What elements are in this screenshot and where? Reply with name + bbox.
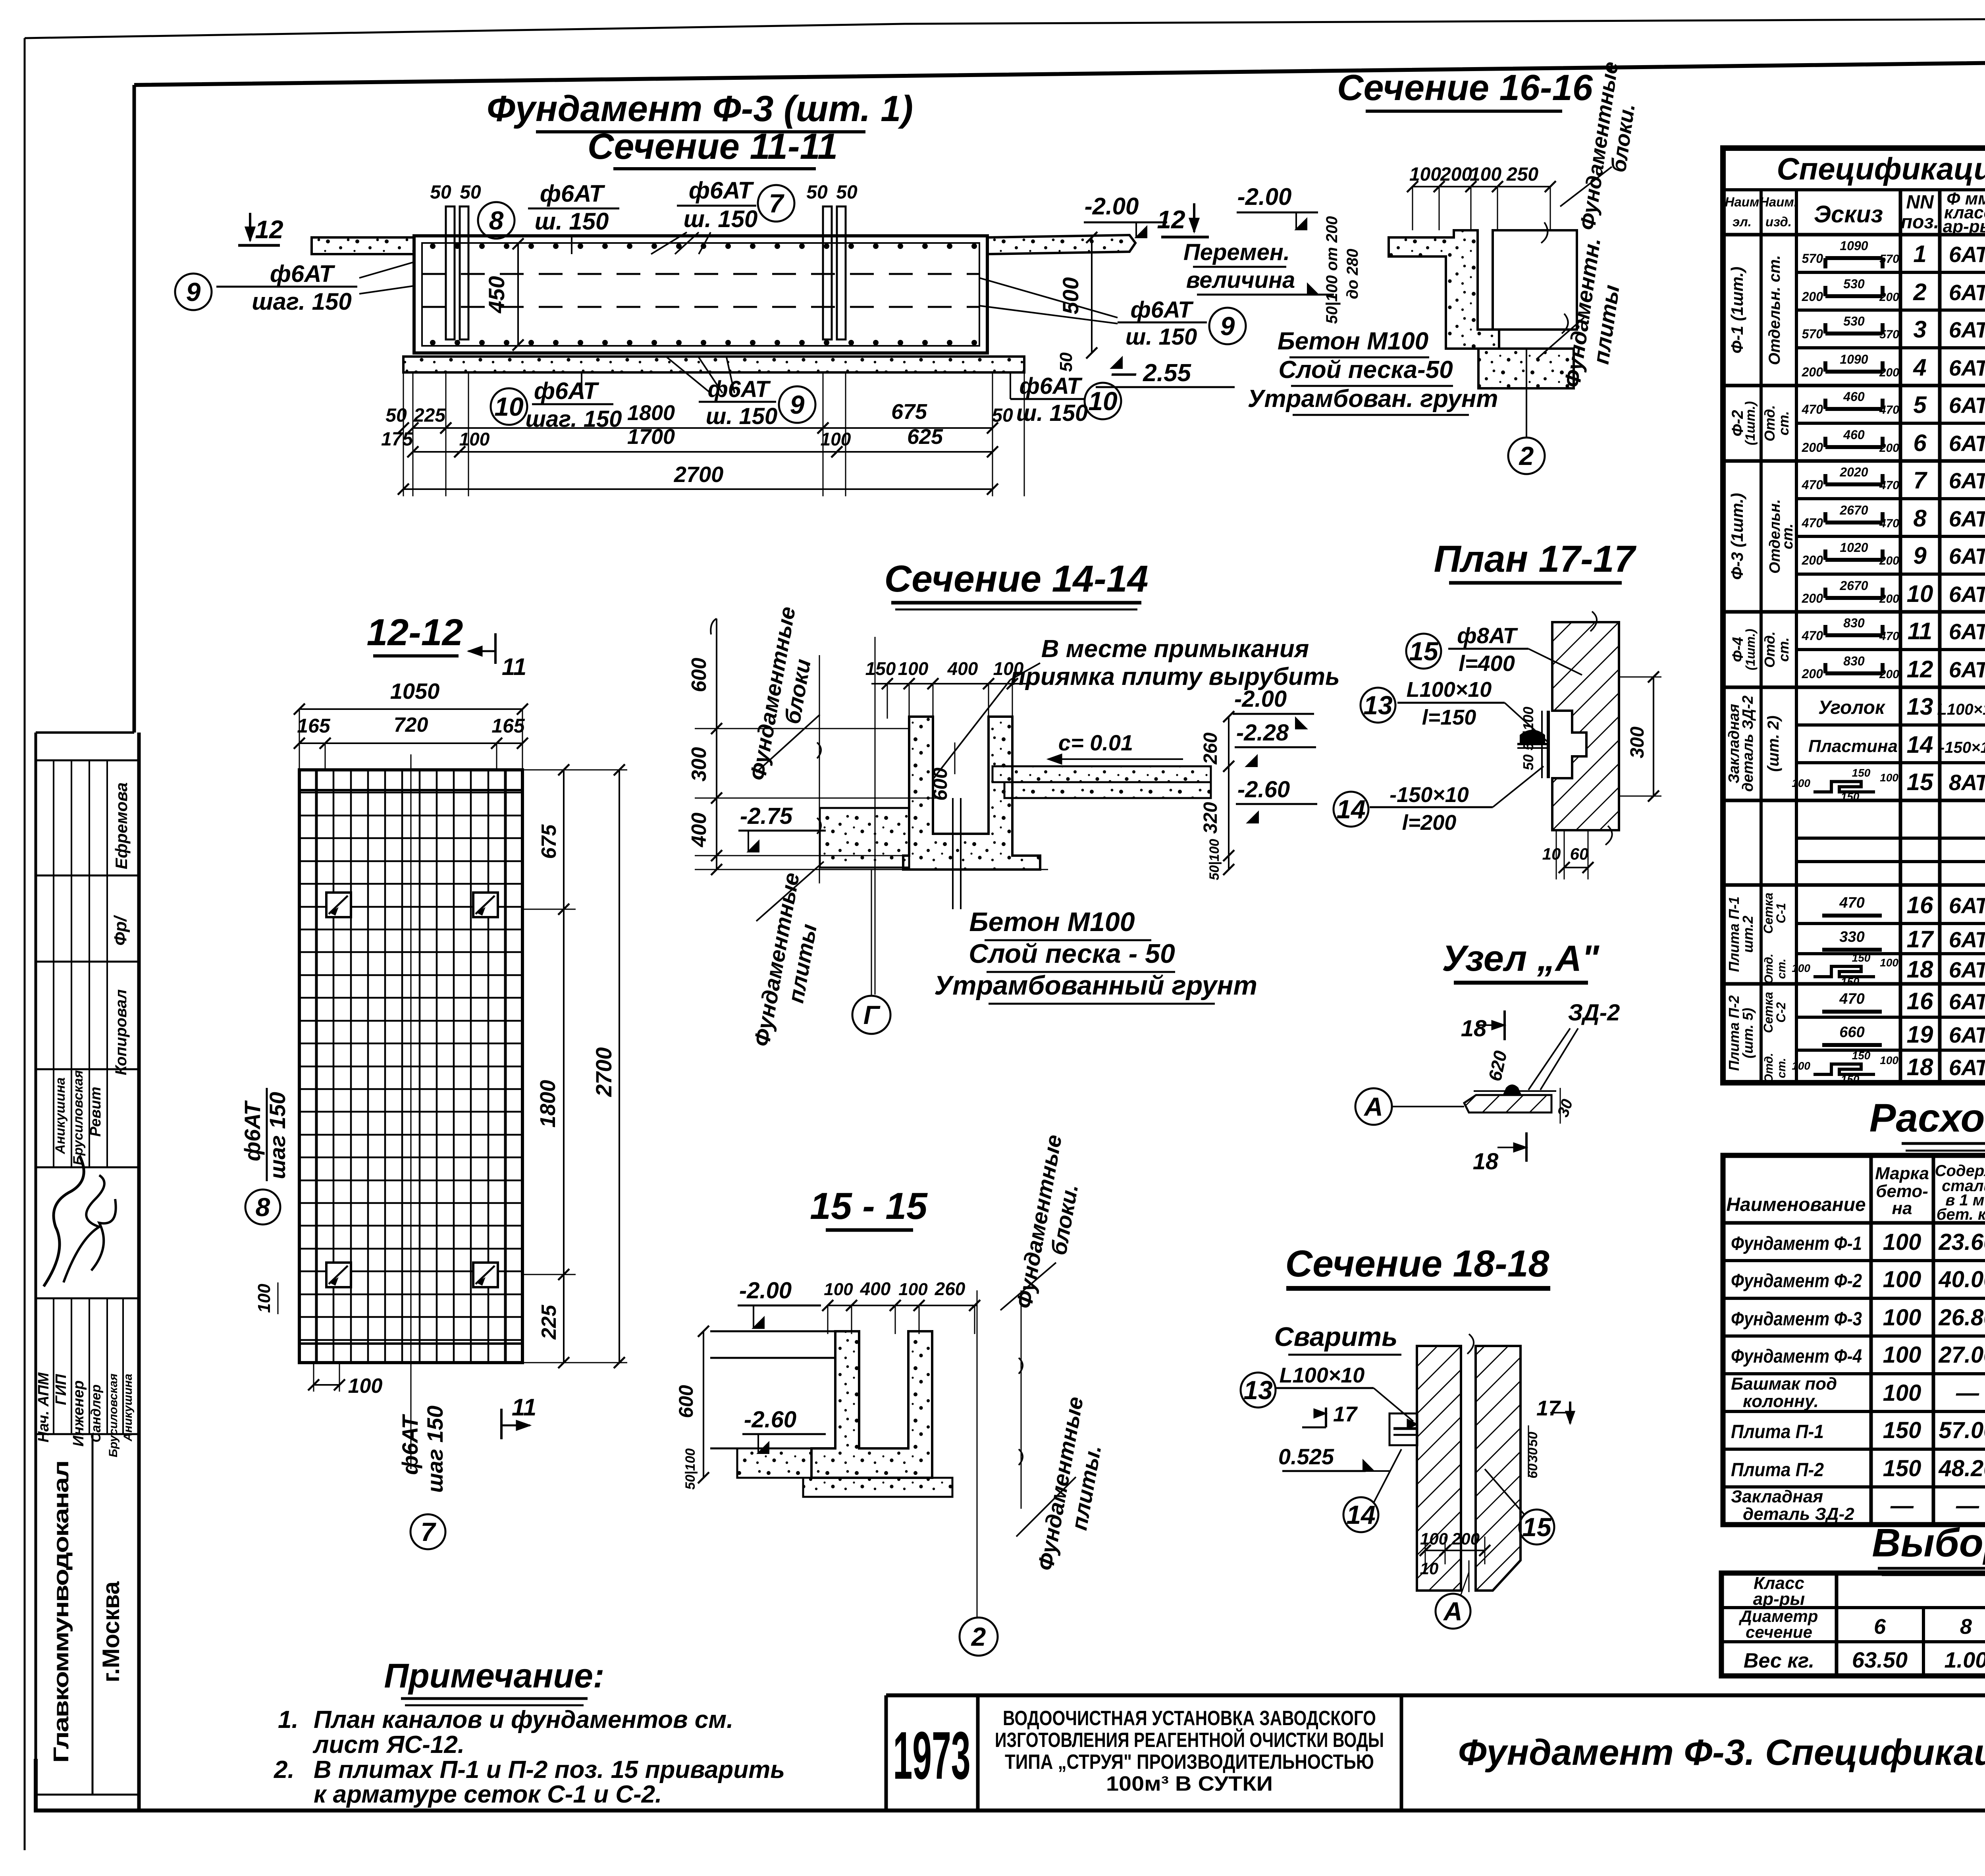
svg-text:ИЗГОТОВЛЕНИЯ РЕАГЕНТНОЙ ОЧИСТК: ИЗГОТОВЛЕНИЯ РЕАГЕНТНОЙ ОЧИСТКИ ВОДЫ bbox=[995, 1728, 1384, 1752]
svg-text:на: на bbox=[1892, 1199, 1912, 1218]
plan 12-12 cut mark 11 top bbox=[494, 633, 497, 664]
svg-text:Расход материалов.: Расход материалов. bbox=[1869, 1096, 1985, 1140]
svg-text:С-1: С-1 bbox=[1774, 903, 1788, 924]
svg-text:200: 200 bbox=[1879, 442, 1899, 455]
svg-text:300: 300 bbox=[688, 747, 711, 782]
svg-text:шаг. 150: шаг. 150 bbox=[252, 288, 351, 315]
svg-text:(шт. 2): (шт. 2) bbox=[1765, 715, 1782, 772]
plan 17-17 right dim 300 bbox=[1653, 677, 1654, 796]
section 11-11 label 10 right bbox=[1085, 383, 1121, 419]
plan 17-17 label 13 bbox=[1361, 688, 1395, 723]
section 11-11 left cut mark 12 bbox=[249, 213, 251, 241]
svg-text:Эскиз: Эскиз bbox=[1814, 201, 1883, 228]
svg-text:600: 600 bbox=[688, 658, 711, 692]
section 11-11 rebar dots top and bottom bbox=[430, 243, 436, 249]
uzel A cut mark 18 bottom bbox=[1525, 1132, 1528, 1162]
svg-text:приямка плиту вырубить: приямка плиту вырубить bbox=[1010, 663, 1340, 690]
svg-text:14: 14 bbox=[1346, 1500, 1375, 1529]
svg-text:260: 260 bbox=[1200, 733, 1221, 765]
svg-text:Бетон М100: Бетон М100 bbox=[1278, 328, 1428, 355]
svg-text:200: 200 bbox=[1451, 1529, 1480, 1548]
svg-text:Копировал: Копировал bbox=[112, 989, 130, 1076]
section 11-11 bottom slab bbox=[403, 357, 1024, 372]
svg-text:2: 2 bbox=[971, 1622, 986, 1651]
stamp org name Glavkommunvodokanal bbox=[92, 1434, 94, 1795]
svg-text:50: 50 bbox=[992, 405, 1013, 426]
materials consumption table grid bbox=[1723, 1155, 1985, 1525]
svg-text:8: 8 bbox=[1960, 1615, 1972, 1639]
svg-text:470: 470 bbox=[1802, 478, 1823, 492]
svg-text:600: 600 bbox=[929, 767, 951, 801]
svg-text:Сетка: Сетка bbox=[1761, 992, 1775, 1033]
svg-text:10: 10 bbox=[1542, 844, 1561, 863]
svg-text:19: 19 bbox=[1907, 1021, 1933, 1048]
svg-text:ш. 150: ш. 150 bbox=[684, 206, 758, 232]
section 11-11 label 9 circle left bbox=[175, 274, 212, 310]
section 14-14 circle G axis bbox=[871, 870, 872, 996]
svg-text:100: 100 bbox=[1883, 1305, 1921, 1330]
section 11-11 dimension chain row3 2700 bbox=[403, 488, 992, 490]
svg-text:Фундамент Ф-1: Фундамент Ф-1 bbox=[1731, 1233, 1862, 1254]
svg-text:570: 570 bbox=[1802, 251, 1823, 266]
svg-text:100: 100 bbox=[1792, 777, 1810, 789]
section 11-11 label 9 bottom bbox=[779, 386, 815, 423]
svg-text:11: 11 bbox=[512, 1394, 536, 1421]
svg-text:63.50: 63.50 bbox=[1852, 1647, 1908, 1672]
svg-text:5: 5 bbox=[1913, 391, 1927, 418]
svg-text:4: 4 bbox=[1913, 354, 1926, 381]
section 14-14 left dim chain bbox=[716, 619, 717, 870]
svg-text:Отд.: Отд. bbox=[1762, 954, 1775, 984]
svg-text:100: 100 bbox=[1880, 1054, 1898, 1066]
svg-text:Сандлер: Сандлер bbox=[89, 1384, 104, 1442]
svg-text:ст.: ст. bbox=[1775, 637, 1792, 662]
svg-text:бето-: бето- bbox=[1876, 1182, 1928, 1201]
svg-text:-2.28: -2.28 bbox=[1236, 720, 1289, 746]
svg-text:Плита П-2: Плита П-2 bbox=[1731, 1460, 1824, 1481]
section 11-11 label 10 left bbox=[491, 388, 527, 425]
svg-text:14: 14 bbox=[1336, 794, 1365, 824]
svg-text:Спецификация арматуры.: Спецификация арматуры. bbox=[1777, 151, 1985, 186]
svg-text:8: 8 bbox=[489, 206, 504, 235]
svg-text:6: 6 bbox=[1874, 1615, 1886, 1639]
svg-text:Фундамент Ф-3: Фундамент Ф-3 bbox=[1731, 1309, 1862, 1330]
svg-text:10: 10 bbox=[1088, 386, 1118, 416]
svg-text:50: 50 bbox=[385, 405, 407, 426]
svg-text:6АТ: 6АТ bbox=[1949, 468, 1985, 493]
svg-text:450: 450 bbox=[484, 276, 509, 313]
svg-text:2020: 2020 bbox=[1839, 465, 1868, 479]
svg-text:ш. 150: ш. 150 bbox=[706, 403, 778, 429]
svg-text:-150×10: -150×10 bbox=[1939, 739, 1985, 756]
plan 12-12 outer dim 2700 bbox=[522, 769, 627, 771]
svg-text:100: 100 bbox=[898, 658, 929, 679]
svg-text:6АТ: 6АТ bbox=[1949, 355, 1985, 380]
section 11-11 top slab right bbox=[987, 235, 1135, 254]
svg-text:ар-ры: ар-ры bbox=[1943, 217, 1985, 236]
uzel A circle A bbox=[1355, 1088, 1392, 1125]
svg-text:100: 100 bbox=[1880, 956, 1898, 969]
svg-text:470: 470 bbox=[1839, 895, 1864, 911]
svg-text:225: 225 bbox=[413, 405, 446, 426]
svg-text:6АТ: 6АТ bbox=[1949, 989, 1985, 1014]
svg-text:13: 13 bbox=[1243, 1375, 1272, 1405]
svg-text:колонну.: колонну. bbox=[1743, 1392, 1819, 1411]
plan 17-17 embedded plate bbox=[1547, 711, 1550, 778]
plan 17-17 hatched wall bbox=[1552, 622, 1619, 830]
section 16-16 foundation blocks plain bbox=[1493, 230, 1577, 330]
svg-text:сечение: сечение bbox=[1746, 1623, 1812, 1641]
svg-text:Ф-1 (1шт.): Ф-1 (1шт.) bbox=[1728, 267, 1746, 354]
svg-text:15 - 15: 15 - 15 bbox=[810, 1185, 928, 1227]
section 11-11 label 9 circle right bbox=[1209, 308, 1246, 344]
section 15-15 left slab lines bbox=[710, 1330, 835, 1332]
plan 12-12 rebar grid bbox=[299, 770, 522, 1363]
svg-text:эл.: эл. bbox=[1733, 214, 1752, 229]
svg-text:Аникушина: Аникушина bbox=[53, 1078, 68, 1155]
svg-text:200: 200 bbox=[1802, 553, 1823, 567]
svg-text:2: 2 bbox=[1913, 279, 1926, 305]
svg-text:ст.: ст. bbox=[1775, 411, 1792, 436]
svg-text:Бетон М100: Бетон М100 bbox=[969, 907, 1135, 937]
svg-text:100: 100 bbox=[348, 1375, 383, 1398]
svg-text:NN: NN bbox=[1906, 192, 1934, 213]
section 11-11 dim 450 inside bbox=[517, 244, 519, 345]
svg-text:400: 400 bbox=[947, 658, 978, 679]
svg-text:400: 400 bbox=[688, 813, 711, 848]
svg-text:ф6АТ: ф6АТ bbox=[707, 376, 771, 402]
svg-text:470: 470 bbox=[1802, 629, 1823, 643]
svg-text:Нач. АПМ: Нач. АПМ bbox=[35, 1372, 52, 1442]
svg-text:830: 830 bbox=[1843, 616, 1865, 630]
svg-text:ст.: ст. bbox=[1775, 1058, 1788, 1078]
plan 17-17 label 15 bbox=[1406, 634, 1441, 669]
svg-text:ф6АТ: ф6АТ bbox=[397, 1413, 422, 1475]
section 16-16 leader to circle 2 bbox=[1526, 349, 1527, 437]
svg-text:675: 675 bbox=[538, 824, 561, 859]
svg-text:6: 6 bbox=[1913, 430, 1927, 456]
svg-text:деталь ЗД-2: деталь ЗД-2 bbox=[1743, 1504, 1854, 1524]
svg-text:530: 530 bbox=[1843, 277, 1865, 291]
svg-text:9: 9 bbox=[1913, 542, 1927, 569]
svg-text:Уголок: Уголок bbox=[1818, 697, 1886, 718]
svg-text:поз.: поз. bbox=[1901, 212, 1939, 233]
svg-text:6АТ: 6АТ bbox=[1949, 893, 1985, 918]
plan 12-12 cut mark 11 bottom bbox=[500, 1409, 503, 1439]
svg-text:l=200: l=200 bbox=[1402, 811, 1457, 835]
svg-text:6АТ: 6АТ bbox=[1949, 582, 1985, 607]
svg-text:675: 675 bbox=[891, 400, 927, 424]
svg-text:30: 30 bbox=[1525, 1448, 1540, 1463]
svg-text:400: 400 bbox=[860, 1278, 891, 1299]
section 18-18 label 13 bbox=[1241, 1373, 1276, 1407]
svg-text:200: 200 bbox=[1879, 291, 1899, 304]
svg-text:— 2.55: — 2.55 bbox=[1111, 359, 1191, 387]
svg-text:Наим.: Наим. bbox=[1760, 195, 1798, 209]
svg-text:-2.00: -2.00 bbox=[1085, 193, 1139, 220]
svg-text:изд.: изд. bbox=[1765, 214, 1792, 229]
svg-text:200: 200 bbox=[1879, 592, 1899, 605]
section 15-15 circle 2 bbox=[960, 1618, 998, 1656]
rebar specification table grid bbox=[1723, 148, 1985, 1083]
svg-text:6АТ: 6АТ bbox=[1949, 280, 1985, 305]
section 14-14 floor slab right bbox=[992, 766, 1211, 782]
svg-text:2: 2 bbox=[1519, 441, 1534, 470]
svg-text:50: 50 bbox=[1056, 352, 1076, 372]
svg-text:1800: 1800 bbox=[536, 1080, 560, 1128]
svg-text:50: 50 bbox=[460, 182, 481, 203]
svg-text:100: 100 bbox=[1883, 1342, 1921, 1368]
svg-text:320: 320 bbox=[1200, 802, 1221, 834]
svg-text:ф6АТ: ф6АТ bbox=[270, 260, 335, 287]
svg-text:100: 100 bbox=[1883, 1267, 1921, 1292]
svg-text:460: 460 bbox=[1843, 428, 1865, 442]
svg-text:ВОДООЧИСТНАЯ УСТАНОВКА ЗАВОДСК: ВОДООЧИСТНАЯ УСТАНОВКА ЗАВОДСКОГО bbox=[1003, 1707, 1376, 1730]
svg-text:6АТ: 6АТ bbox=[1949, 957, 1985, 982]
uzel A right small dim 30 bbox=[1560, 1088, 1561, 1124]
svg-text:12: 12 bbox=[1157, 205, 1185, 234]
svg-text:18: 18 bbox=[1907, 956, 1933, 983]
svg-text:50|100: 50|100 bbox=[1207, 839, 1222, 880]
section 11-11 label 7 with circle bbox=[758, 185, 794, 222]
svg-text:500: 500 bbox=[1058, 277, 1083, 314]
svg-text:Сечение 14-14: Сечение 14-14 bbox=[885, 558, 1149, 600]
svg-text:Ф-3 (1шт.): Ф-3 (1шт.) bbox=[1728, 493, 1746, 580]
svg-text:18: 18 bbox=[1473, 1149, 1499, 1174]
section 11-11 dimension chain row1 bbox=[403, 373, 404, 496]
svg-text:ф6АТ: ф6АТ bbox=[1019, 373, 1083, 399]
spec table row sketches bbox=[1825, 256, 1883, 260]
svg-text:В плитах П-1 и П-2 поз. 15: В плитах П-1 и П-2 поз. 15 приварить bbox=[314, 1756, 785, 1783]
svg-text:(шт. 5): (шт. 5) bbox=[1740, 1008, 1756, 1059]
svg-text:L100×10: L100×10 bbox=[1407, 678, 1492, 702]
svg-text:l=400: l=400 bbox=[1459, 651, 1515, 676]
svg-text:100: 100 bbox=[1409, 164, 1441, 185]
svg-text:лист ЯС-12.: лист ЯС-12. bbox=[312, 1731, 464, 1758]
svg-text:470: 470 bbox=[1879, 517, 1899, 530]
svg-text:150: 150 bbox=[1841, 791, 1860, 803]
svg-text:-2.00: -2.00 bbox=[739, 1278, 792, 1303]
svg-text:Слой песка-50: Слой песка-50 bbox=[1278, 356, 1453, 384]
svg-text:Фундамент Ф-3 (шт. 1): Фундамент Ф-3 (шт. 1) bbox=[487, 89, 913, 129]
svg-text:1050: 1050 bbox=[390, 679, 440, 704]
svg-text:200: 200 bbox=[1802, 667, 1823, 681]
uzel A plate with hatch bbox=[1464, 1095, 1551, 1112]
section 18-18 circle A bbox=[1469, 1560, 1470, 1592]
svg-text:150: 150 bbox=[1841, 1073, 1860, 1085]
svg-text:Фр/: Фр/ bbox=[111, 915, 130, 946]
svg-text:17: 17 bbox=[1907, 926, 1934, 952]
svg-text:100: 100 bbox=[821, 429, 851, 449]
svg-text:460: 460 bbox=[1843, 389, 1865, 404]
svg-text:10: 10 bbox=[494, 392, 524, 421]
svg-text:50: 50 bbox=[806, 182, 828, 203]
svg-text:10: 10 bbox=[1907, 580, 1933, 607]
svg-text:225: 225 bbox=[538, 1305, 561, 1340]
svg-text:ф8АТ: ф8АТ bbox=[1457, 623, 1518, 648]
section 15-15 left dim 600 bbox=[703, 1331, 704, 1478]
svg-text:150: 150 bbox=[865, 658, 896, 679]
svg-text:План каналов и фундаментов: План каналов и фундаментов см. bbox=[314, 1706, 733, 1733]
svg-text:15: 15 bbox=[1522, 1512, 1552, 1542]
svg-text:830: 830 bbox=[1843, 654, 1865, 668]
plan 12-12 right dim chain bbox=[522, 769, 576, 771]
svg-text:50: 50 bbox=[836, 182, 858, 203]
svg-text:200: 200 bbox=[1802, 365, 1823, 379]
svg-text:150: 150 bbox=[1883, 1456, 1921, 1481]
svg-text:Примечание:: Примечание: bbox=[384, 1657, 604, 1695]
svg-text:48.20: 48.20 bbox=[1938, 1456, 1985, 1481]
svg-text:6АТ: 6АТ bbox=[1949, 657, 1985, 682]
svg-text:Ревит: Ревит bbox=[87, 1087, 104, 1137]
svg-text:Сетка: Сетка bbox=[1761, 893, 1775, 934]
svg-text:L100×10: L100×10 bbox=[1937, 701, 1985, 718]
svg-text:ф6АТ: ф6АТ bbox=[534, 378, 599, 404]
svg-text:100: 100 bbox=[898, 1280, 928, 1299]
svg-text:175: 175 bbox=[381, 429, 413, 450]
plan 12-12 centerline axis bbox=[410, 754, 412, 1469]
svg-text:-150×10: -150×10 bbox=[1389, 783, 1469, 807]
svg-text:Наим: Наим bbox=[1725, 195, 1760, 209]
section 11-11 dim 500 right bbox=[1091, 237, 1093, 353]
svg-text:200: 200 bbox=[1802, 591, 1823, 605]
section 18-18 right small dims bbox=[1528, 1425, 1529, 1477]
section 11-11 label 8 with circle bbox=[478, 202, 515, 239]
plan 17-17 bottom dims 10 60 bbox=[1556, 830, 1557, 879]
svg-text:1800: 1800 bbox=[627, 401, 675, 425]
svg-text:260: 260 bbox=[935, 1278, 966, 1299]
section 18-18 label 15 bbox=[1519, 1510, 1554, 1544]
svg-text:100: 100 bbox=[824, 1280, 853, 1299]
svg-text:Главкоммунводоканал: Главкоммунводоканал bbox=[49, 1461, 73, 1763]
svg-text:3: 3 bbox=[1913, 316, 1926, 343]
outer thin sheet border bbox=[25, 24, 905, 38]
svg-text:330: 330 bbox=[1839, 929, 1864, 945]
svg-text:ст.: ст. bbox=[1779, 524, 1796, 549]
svg-text:Выборка стали.: Выборка стали. bbox=[1872, 1521, 1985, 1565]
svg-text:Брусиловская: Брусиловская bbox=[71, 1070, 86, 1165]
svg-text:Вес кг.: Вес кг. bbox=[1744, 1649, 1814, 1672]
section 15-15 U channel concrete bbox=[811, 1331, 932, 1478]
svg-text:l=150: l=150 bbox=[1422, 706, 1476, 729]
svg-text:ТИПА „СТРУЯ" ПРОИЗВОДИТЕЛЬНОСТ: ТИПА „СТРУЯ" ПРОИЗВОДИТЕЛЬНОСТЬЮ bbox=[1005, 1751, 1374, 1774]
svg-text:100: 100 bbox=[1792, 1060, 1810, 1072]
svg-text:—: — bbox=[1956, 1380, 1979, 1406]
svg-text:50: 50 bbox=[1520, 754, 1536, 770]
svg-text:С-2: С-2 bbox=[1774, 1002, 1788, 1023]
svg-text:570: 570 bbox=[1879, 328, 1899, 341]
stamp signatures scrawl bbox=[44, 1155, 84, 1286]
svg-text:50: 50 bbox=[1525, 1432, 1540, 1447]
svg-text:ф6АТ: ф6АТ bbox=[1130, 297, 1194, 323]
section 16-16 foundation slab block dotted bbox=[1478, 349, 1574, 388]
svg-text:8АТ: 8АТ bbox=[1949, 770, 1985, 795]
svg-text:величина: величина bbox=[1186, 267, 1295, 293]
svg-text:10: 10 bbox=[1420, 1559, 1439, 1578]
svg-text:Сечение 11-11: Сечение 11-11 bbox=[588, 126, 838, 167]
section 18-18 bottom dims 100 200 bbox=[1425, 1537, 1426, 1564]
svg-text:6АТ: 6АТ bbox=[1949, 1022, 1985, 1047]
svg-text:12: 12 bbox=[1907, 656, 1933, 683]
svg-text:600: 600 bbox=[675, 1385, 697, 1418]
svg-text:2670: 2670 bbox=[1839, 503, 1868, 517]
svg-text:100: 100 bbox=[1880, 771, 1898, 784]
svg-text:11: 11 bbox=[502, 654, 526, 680]
svg-text:100: 100 bbox=[1883, 1229, 1921, 1255]
svg-text:(1шт.): (1шт.) bbox=[1743, 629, 1758, 670]
svg-text:Отдельн. ст.: Отдельн. ст. bbox=[1766, 255, 1783, 365]
svg-text:27.00: 27.00 bbox=[1938, 1342, 1985, 1368]
section 14-14 horizontal extension lines bbox=[695, 728, 909, 729]
svg-text:720: 720 bbox=[394, 713, 428, 737]
svg-text:1.00: 1.00 bbox=[1945, 1647, 1985, 1672]
svg-text:Сварить: Сварить bbox=[1274, 1322, 1397, 1352]
svg-text:бет. кг.: бет. кг. bbox=[1937, 1206, 1985, 1223]
svg-text:ф6АТ: ф6АТ bbox=[540, 180, 605, 207]
section 15-15 right axis and blocks bbox=[977, 1290, 978, 1617]
svg-text:Отд.: Отд. bbox=[1762, 1053, 1775, 1084]
svg-text:6АТ: 6АТ bbox=[1949, 393, 1985, 418]
svg-text:200: 200 bbox=[1879, 366, 1899, 379]
svg-text:1020: 1020 bbox=[1840, 540, 1868, 555]
svg-text:12: 12 bbox=[255, 215, 283, 244]
svg-text:ст.: ст. bbox=[1775, 958, 1788, 979]
svg-text:150: 150 bbox=[1852, 1049, 1871, 1062]
svg-text:6АТ: 6АТ bbox=[1949, 619, 1985, 644]
svg-text:26.80: 26.80 bbox=[1938, 1305, 1985, 1330]
svg-text:Марка: Марка bbox=[1875, 1164, 1929, 1183]
section 11-11 beam body bbox=[414, 236, 987, 353]
svg-text:100: 100 bbox=[1883, 1380, 1921, 1406]
svg-text:100: 100 bbox=[1420, 1529, 1448, 1548]
section 15-15 bottom left dotted slab bbox=[737, 1448, 811, 1478]
svg-text:50|100 от 200: 50|100 от 200 bbox=[1323, 216, 1341, 324]
svg-text:165: 165 bbox=[491, 715, 525, 737]
svg-text:—: — bbox=[1890, 1493, 1914, 1519]
svg-text:0.525: 0.525 bbox=[1278, 1444, 1334, 1469]
section 18-18 mark 17 left bbox=[1302, 1427, 1326, 1429]
svg-text:Брусиловская: Брусиловская bbox=[107, 1373, 120, 1457]
svg-text:А: А bbox=[1443, 1596, 1463, 1626]
left stamp strip grid bbox=[35, 733, 37, 1810]
svg-text:ар-ры: ар-ры bbox=[1753, 1589, 1805, 1609]
svg-text:16: 16 bbox=[1907, 988, 1933, 1014]
svg-text:8: 8 bbox=[1913, 505, 1927, 532]
svg-text:40.00: 40.00 bbox=[1938, 1267, 1985, 1292]
section 11-11 anchor bolts bbox=[446, 206, 455, 339]
svg-text:1: 1 bbox=[1913, 241, 1926, 267]
svg-text:г.Москва: г.Москва bbox=[98, 1581, 124, 1682]
svg-text:15: 15 bbox=[1409, 636, 1439, 666]
svg-text:-2.00: -2.00 bbox=[1234, 686, 1287, 712]
svg-text:2.: 2. bbox=[274, 1756, 295, 1783]
svg-text:200: 200 bbox=[1879, 668, 1899, 681]
svg-text:Сечение 18-18: Сечение 18-18 bbox=[1285, 1243, 1549, 1285]
svg-text:План 17-17: План 17-17 bbox=[1434, 538, 1636, 580]
svg-text:ш. 150: ш. 150 bbox=[1016, 400, 1088, 426]
svg-text:шаг 150: шаг 150 bbox=[422, 1406, 447, 1493]
svg-text:15: 15 bbox=[1907, 769, 1934, 795]
svg-text:с= 0.01: с= 0.01 bbox=[1058, 730, 1133, 755]
section 15-15 base plate dotted bbox=[803, 1478, 952, 1497]
plan 17-17 label 14 bbox=[1334, 792, 1368, 827]
title block frame bbox=[886, 1693, 1985, 1697]
svg-text:50|100: 50|100 bbox=[683, 1448, 698, 1490]
section 11-11 top slab left bbox=[312, 237, 414, 254]
svg-text:Утрамбован. грунт: Утрамбован. грунт bbox=[1247, 385, 1498, 413]
svg-text:Фундамент Ф-4: Фундамент Ф-4 bbox=[1731, 1346, 1862, 1367]
svg-text:18: 18 bbox=[1907, 1054, 1933, 1080]
